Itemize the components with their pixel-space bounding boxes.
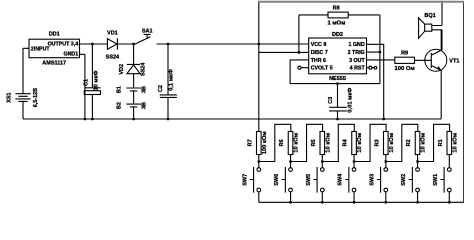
svg-text:SA1: SA1 (142, 29, 153, 35)
svg-text:0,1 мкФ: 0,1 мкФ (169, 69, 175, 91)
svg-text:SW4: SW4 (338, 173, 344, 186)
svg-text:10 кОм: 10 кОм (452, 133, 458, 153)
svg-text:R4: R4 (343, 138, 349, 146)
svg-text:R9: R9 (401, 50, 408, 56)
svg-text:6,5-12В: 6,5-12В (33, 88, 39, 107)
svg-text:SW2: SW2 (401, 174, 407, 186)
svg-text:C1: C1 (83, 79, 89, 86)
svg-text:R8: R8 (333, 6, 340, 12)
svg-text:VD1: VD1 (107, 30, 118, 36)
svg-text:THR 6: THR 6 (311, 58, 326, 64)
svg-text:SW1: SW1 (433, 174, 439, 186)
svg-text:R2: R2 (406, 139, 412, 146)
svg-text:SW7: SW7 (242, 174, 248, 186)
svg-text:SS24: SS24 (141, 62, 147, 76)
svg-text:10 кОм: 10 кОм (357, 133, 363, 153)
svg-text:2INPUT: 2INPUT (31, 47, 51, 53)
svg-text:SW5: SW5 (306, 174, 312, 186)
svg-text:10 мкФ: 10 мкФ (93, 70, 99, 90)
svg-text:SS24: SS24 (106, 55, 120, 61)
svg-text:DD1: DD1 (49, 32, 60, 38)
svg-text:1 мОм: 1 мОм (327, 21, 345, 27)
svg-text:CVOLT 5: CVOLT 5 (311, 66, 333, 72)
svg-text:3 OUT: 3 OUT (349, 58, 365, 64)
svg-text:DISC 7: DISC 7 (311, 50, 328, 56)
svg-text:VT1: VT1 (449, 58, 459, 64)
svg-text:NE555: NE555 (329, 76, 346, 82)
svg-text:R6: R6 (279, 139, 285, 146)
svg-text:VD2: VD2 (119, 64, 125, 75)
svg-text:SW3: SW3 (369, 174, 375, 186)
svg-text:R1: R1 (438, 139, 444, 146)
svg-text:BQ1: BQ1 (424, 13, 435, 19)
svg-text:R7: R7 (248, 139, 254, 146)
svg-text:XS1: XS1 (7, 92, 13, 102)
svg-text:100 Ом: 100 Ом (395, 66, 415, 72)
svg-text:GND1: GND1 (63, 52, 78, 58)
svg-text:2 TRIG: 2 TRIG (348, 50, 365, 56)
svg-text:0,01 мкФ: 0,01 мкФ (347, 88, 353, 113)
svg-text:1 GND: 1 GND (348, 42, 364, 48)
svg-text:OUTPUT 3,4: OUTPUT 3,4 (48, 42, 79, 48)
svg-text:R5: R5 (311, 139, 317, 146)
svg-text:10 кОм: 10 кОм (421, 133, 427, 153)
svg-text:3В: 3В (142, 86, 148, 93)
svg-text:AMS1117: AMS1117 (42, 60, 66, 66)
svg-text:3В: 3В (142, 102, 148, 109)
svg-text:B1: B1 (116, 86, 122, 93)
svg-text:C2: C2 (158, 85, 164, 92)
svg-text:B2: B2 (116, 102, 122, 109)
svg-text:100 кОм: 100 кОм (262, 131, 268, 154)
svg-text:C3: C3 (328, 97, 334, 104)
svg-text:10 кОм: 10 кОм (294, 133, 300, 153)
svg-text:4 RST: 4 RST (350, 66, 366, 72)
svg-text:DD2: DD2 (332, 32, 343, 38)
svg-text:R3: R3 (375, 139, 381, 146)
svg-text:VCC 8: VCC 8 (311, 42, 327, 48)
svg-text:10 кОм: 10 кОм (325, 133, 331, 153)
svg-text:SW6: SW6 (274, 174, 280, 186)
svg-text:10 кОм: 10 кОм (389, 133, 395, 153)
